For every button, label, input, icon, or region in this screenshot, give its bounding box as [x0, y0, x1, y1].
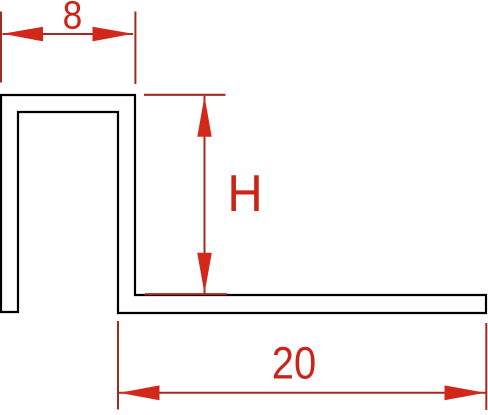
dimension 20: right arrowhead: [445, 385, 486, 400]
dimension 20: dimension line: [119, 392, 486, 394]
svg-text:8: 8: [63, 0, 83, 37]
dimension 20: right extension line: [485, 323, 487, 410]
dimension H: top tick line: [144, 94, 226, 96]
dimension 20: left arrowhead: [119, 385, 160, 400]
dimension H: bottom tick line: [145, 293, 227, 295]
dimension 8: right extension line: [134, 12, 136, 85]
dimension 8: dimension line: [3, 33, 134, 35]
dimension H: vertical dimension line: [204, 96, 206, 294]
dimension H: down arrowhead: [197, 253, 212, 294]
profile outline (tile trim cross-section): [1, 95, 486, 313]
svg-text:H: H: [227, 165, 262, 222]
dimension 8: right arrowhead: [93, 27, 134, 42]
dimension 20: left extension line: [117, 321, 119, 410]
svg-text:20: 20: [272, 338, 316, 389]
dimension H: up arrowhead: [197, 96, 211, 137]
dimension 8: left arrowhead: [3, 27, 44, 42]
dimension 8: left extension line: [0, 12, 2, 83]
